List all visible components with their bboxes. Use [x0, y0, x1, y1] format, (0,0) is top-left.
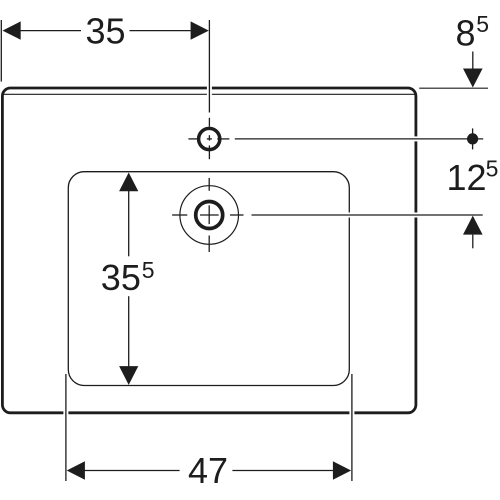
svg-text:35: 35: [85, 11, 125, 52]
svg-text:5: 5: [476, 11, 489, 37]
washbasin rim front edge line: [4, 93, 415, 95]
drain centerline vertical: [208, 178, 210, 252]
dim 35 left arrow: [3, 21, 21, 39]
dim 47 right arrow: [333, 461, 351, 479]
dim 12.5 dot marker: [467, 133, 478, 144]
svg-text:47: 47: [188, 450, 228, 491]
dim 12.5 dot marker tick: [472, 128, 474, 149]
tap hole centerline vertical (with white halo, also right extension of dim 35): [207, 20, 212, 159]
drain outer circle: [180, 186, 239, 245]
tap hole centerline horizontal + extension line to 12.5 dim (with halo over basin/outline): [188, 136, 483, 141]
dim 8.5 reference level line: [419, 87, 488, 89]
inner basin outline: [68, 172, 349, 386]
dim 8.5 arrow tail: [472, 52, 474, 69]
dim 12.5 up arrow: [463, 216, 483, 235]
dim 35.5 line upper segment: [128, 174, 130, 256]
svg-text:8: 8: [456, 13, 476, 54]
dim 47 left extension line: [63, 374, 68, 481]
svg-text:5: 5: [486, 156, 499, 182]
dim 47 line right segment: [232, 470, 333, 472]
svg-text:12: 12: [447, 157, 487, 198]
svg-text:5: 5: [142, 257, 155, 283]
dim 47 right extension line: [349, 374, 354, 481]
drain centerline horizontal + extension line to 12.5 dim arrow (halo cuts basin and outline edges): [172, 213, 483, 218]
washbasin outer outline: [2, 88, 416, 413]
tap hole: [199, 128, 220, 149]
svg-text:35: 35: [101, 257, 141, 298]
dim 8.5 down arrow: [463, 69, 483, 88]
dim 47 left arrow: [67, 461, 85, 479]
dim 47 line left segment: [85, 470, 180, 472]
dim 35.5 up arrow: [119, 173, 138, 192]
dim 35 right arrow: [191, 21, 209, 39]
drain inner circle: [196, 202, 223, 229]
dim 35.5 line lower segment: [128, 296, 130, 383]
dim 35 line left segment: [21, 30, 82, 32]
dim 35 left extension line: [0, 20, 2, 82]
dim 12.5 arrow tail: [472, 235, 474, 249]
dim 35.5 down arrow: [119, 366, 138, 385]
dim 35 line right segment: [130, 30, 191, 32]
